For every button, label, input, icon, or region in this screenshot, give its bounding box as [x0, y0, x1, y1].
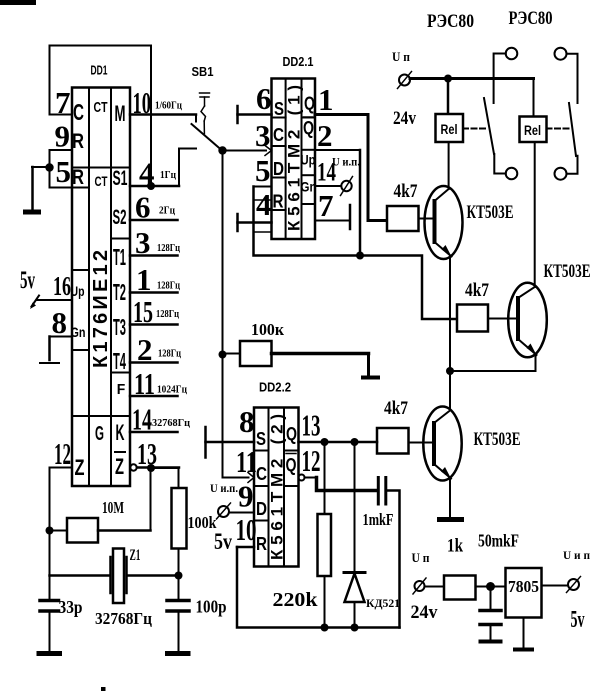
DD2.1 pin 1 Q out — [315, 82, 368, 117]
label U i.p. at pin 9 — [210, 481, 238, 495]
svg-text:КТ503Е: КТ503Е — [544, 261, 591, 282]
node 50mkF tap — [486, 582, 495, 591]
DD1 output label T2 — [113, 279, 126, 305]
svg-text:8: 8 — [52, 305, 68, 340]
svg-text:Q: Q — [286, 424, 297, 444]
DD1 input label Up — [71, 283, 85, 299]
label 1Hz — [160, 169, 177, 181]
resistor 1k — [425, 576, 506, 600]
wire 24v rail — [410, 77, 534, 80]
svg-text:F: F — [117, 381, 126, 398]
wire pin13 to 100k — [151, 468, 179, 488]
svg-text:S: S — [256, 429, 266, 449]
node pin5/ground — [45, 163, 53, 171]
capacitor 50mkF — [480, 587, 501, 641]
svg-text:DD2.2: DD2.2 — [259, 381, 291, 395]
svg-text:2: 2 — [137, 332, 153, 367]
svg-text:T2: T2 — [113, 279, 126, 305]
pin 7 — [50, 85, 73, 120]
svg-text:100p: 100p — [196, 597, 227, 617]
svg-text:4k7: 4k7 — [384, 398, 408, 419]
DD2.2 label D — [256, 499, 267, 519]
svg-text:R: R — [72, 130, 84, 153]
label 100p — [196, 597, 227, 617]
svg-text:1/60Гц: 1/60Гц — [155, 100, 183, 112]
wire pin12 down left rail — [49, 468, 51, 601]
svg-text:5v: 5v — [20, 267, 35, 294]
DD1 internal label G — [95, 423, 104, 445]
ground below 33p — [37, 651, 63, 656]
svg-text:16: 16 — [53, 271, 71, 301]
svg-text:11: 11 — [236, 444, 257, 479]
DD2.1 label Qbar — [303, 117, 314, 138]
label RES80 first — [427, 11, 474, 32]
DD2.2 label C — [256, 464, 267, 484]
svg-text:10: 10 — [236, 512, 257, 547]
connector Uip pin14 — [341, 177, 353, 196]
svg-text:4k7: 4k7 — [465, 280, 489, 301]
svg-text:C: C — [256, 464, 267, 484]
svg-text:T3: T3 — [113, 314, 126, 340]
DD1 output label M — [115, 101, 126, 126]
pin 1 — [130, 262, 178, 297]
pin 14 — [130, 402, 178, 437]
dashed link relay1 — [463, 128, 487, 130]
relay1 contact bottom — [494, 154, 517, 179]
label 10M — [102, 498, 124, 517]
DD1 internal label CT upper — [94, 100, 108, 116]
svg-text:50mkF: 50mkF — [478, 531, 519, 551]
label 128Hz d — [158, 348, 182, 360]
svg-text:РЭС80: РЭС80 — [427, 11, 474, 32]
svg-text:Rel: Rel — [524, 123, 541, 138]
svg-text:R: R — [256, 534, 267, 554]
pin 4 — [130, 156, 179, 191]
label 24v input — [411, 602, 438, 623]
DD2.2 pin 13 Q out — [299, 408, 378, 443]
DD1 output label S2 — [113, 206, 127, 229]
svg-text:15: 15 — [133, 294, 153, 329]
wire crystal row — [50, 574, 179, 577]
svg-text:100к: 100к — [251, 320, 284, 339]
svg-text:КТ503Е: КТ503Е — [474, 429, 521, 450]
IC DD2.1 body — [272, 79, 316, 240]
label 100k horizontal — [251, 320, 284, 339]
relay2 contact bottom — [555, 156, 578, 180]
pin 16 — [37, 271, 72, 301]
relay coil Rel 1 — [436, 79, 464, 143]
label RES80 second — [509, 8, 553, 29]
DD2.2 pin 11 clock arrow — [223, 444, 258, 483]
dashed link relay2 — [547, 128, 570, 130]
resistor 4k7 second — [457, 305, 516, 332]
pin 8 — [50, 305, 73, 340]
transistor Q1 KT503E — [425, 142, 463, 371]
node Qbar rail — [356, 252, 364, 260]
label 33p — [59, 597, 83, 617]
svg-text:24v: 24v — [393, 108, 416, 129]
svg-text:К176ИЕ12: К176ИЕ12 — [90, 250, 112, 368]
resistor 10M — [50, 518, 151, 543]
label 1k — [447, 536, 463, 557]
DD2.2 label Qbar — [286, 454, 297, 476]
relay1 contact top — [494, 48, 518, 103]
svg-text:24v: 24v — [411, 602, 438, 623]
svg-text:14: 14 — [132, 402, 152, 437]
label 128Hz a — [157, 242, 181, 254]
DD2.1 label Up — [301, 152, 316, 168]
svg-text:12: 12 — [302, 443, 321, 478]
svg-text:U и.п.: U и.п. — [332, 155, 360, 169]
DD1 output label Zbar — [115, 452, 125, 479]
wire feedback loop S1->C over DD1 — [50, 46, 152, 187]
pin 9 — [50, 119, 73, 154]
svg-text:Up: Up — [71, 283, 85, 299]
relay1 contact arm — [484, 98, 494, 154]
svg-text:9: 9 — [238, 479, 254, 514]
node Q to 220k — [321, 438, 329, 446]
label U i.p. at pin 14 — [332, 155, 360, 169]
label U p supply — [392, 49, 410, 64]
svg-text:U п: U п — [412, 550, 430, 565]
DD2.1 pin 3 clock arrow — [255, 118, 272, 156]
wire DD2.1 Qbar feedback to D — [254, 150, 361, 256]
svg-text:S2: S2 — [113, 206, 127, 229]
regulator 7805 — [506, 568, 542, 618]
svg-text:2: 2 — [317, 118, 333, 153]
svg-text:1: 1 — [136, 262, 152, 297]
svg-text:220k: 220k — [273, 589, 319, 611]
svg-text:32768Гц: 32768Гц — [95, 609, 152, 628]
label KD521 — [366, 596, 400, 610]
svg-text:РЭС80: РЭС80 — [509, 8, 553, 29]
DD2.2 label Q — [286, 424, 297, 444]
resistor 100k vertical — [172, 488, 187, 576]
svg-text:1: 1 — [318, 82, 334, 117]
label 128Hz c — [156, 308, 180, 320]
svg-text:U и п: U и п — [563, 548, 590, 562]
svg-text:10: 10 — [133, 85, 152, 120]
IC DD1 designator — [91, 64, 108, 78]
label 128Hz b — [157, 280, 181, 292]
svg-text:U п: U п — [392, 49, 410, 64]
DD2.1 pin 6 — [238, 81, 272, 123]
svg-text:6: 6 — [135, 190, 151, 225]
capacitor 33p — [40, 601, 59, 653]
DD2.2 pin 9 — [229, 479, 254, 514]
node SB1 common — [218, 146, 226, 154]
svg-text:1Гц: 1Гц — [160, 169, 177, 181]
DD2.1 pin 5 — [254, 153, 272, 188]
pin 3 — [130, 225, 178, 260]
svg-text:D: D — [256, 499, 267, 519]
DD2.1 label Gn — [301, 179, 317, 195]
label U p input — [412, 550, 430, 565]
pin 15 — [130, 294, 178, 329]
pin 13 with inverter bubble — [130, 436, 179, 471]
node emitter rail — [446, 367, 454, 375]
label 4k7 third — [384, 398, 408, 419]
svg-text:1k: 1k — [447, 536, 463, 557]
ground at pin 5 — [23, 167, 41, 212]
svg-text:1mkF: 1mkF — [363, 510, 394, 529]
label 100k — [188, 513, 218, 532]
connector 5v to pin 16 — [30, 296, 39, 310]
wire pin10 end bend — [195, 115, 197, 122]
resistor 100k horizontal — [223, 341, 369, 366]
svg-text:T1: T1 — [113, 244, 126, 270]
transistor Q3 KT503E — [423, 371, 461, 517]
svg-text:U и.п.: U и.п. — [210, 481, 238, 495]
svg-text:4: 4 — [139, 156, 155, 191]
label 5v output — [571, 607, 585, 633]
ground below 100p — [165, 651, 191, 656]
IC DD2.2 designator — [259, 381, 291, 395]
wire SB1 to DD2.1 C — [223, 150, 267, 152]
DD1 internal label CT lower — [95, 173, 108, 189]
svg-text:5v: 5v — [214, 529, 232, 554]
svg-text:CT: CT — [95, 173, 108, 189]
svg-text:Q: Q — [303, 118, 314, 138]
label KT503E second — [544, 261, 591, 282]
svg-text:6: 6 — [256, 81, 272, 116]
DD2.1 label D — [273, 159, 284, 179]
label 4k7 first — [394, 181, 418, 202]
wire 7805 output — [542, 585, 569, 587]
svg-text:Z: Z — [75, 455, 85, 480]
switch SB1 throw-2 stub from pin 4 — [179, 149, 196, 187]
pin 2 — [130, 332, 178, 367]
pin 10 — [130, 85, 196, 120]
ground below 50mkF — [479, 640, 503, 644]
switch SB1 button actuator — [200, 93, 210, 134]
label SB1 — [192, 65, 214, 79]
DD1 output label F — [117, 381, 126, 398]
svg-text:Q: Q — [286, 455, 297, 475]
DD2.1 pin 4 — [238, 187, 272, 232]
switch SB1 arm — [192, 124, 222, 150]
transistor Q2 KT503E — [450, 142, 547, 371]
DD2.1 pin 7 — [315, 188, 350, 229]
svg-text:G: G — [95, 423, 104, 445]
DD2.2 label S — [256, 429, 266, 449]
DD1 input label C — [73, 99, 84, 125]
DD1 input label Gn — [71, 324, 86, 340]
capacitor 100p — [167, 601, 189, 653]
DD2.1 pin 14 — [315, 158, 341, 187]
wire 1mkF right to rail — [386, 491, 400, 628]
label 5v at pin 9 — [214, 529, 232, 554]
svg-text:Z: Z — [115, 454, 124, 479]
svg-text:5: 5 — [56, 154, 72, 189]
svg-text:КД521: КД521 — [366, 596, 400, 610]
relay2 contact arm — [569, 103, 576, 156]
svg-text:Q: Q — [304, 94, 315, 114]
capacitor 1mkF — [378, 478, 386, 505]
DD2.1 label C — [273, 125, 284, 145]
svg-text:Gn: Gn — [71, 324, 86, 340]
label U i p output — [563, 548, 590, 562]
DD2.1 pin 2 Qbar out — [315, 118, 360, 153]
svg-text:1024Гц: 1024Гц — [157, 384, 188, 396]
svg-text:5v: 5v — [571, 607, 585, 633]
wire SB1 common down to DD2.2 C — [222, 151, 224, 478]
connector Uip output — [567, 577, 581, 593]
svg-text:R: R — [72, 166, 84, 189]
label 5v — [20, 267, 35, 294]
resistor 4k7 first — [387, 206, 433, 231]
DD1 input label R1 — [72, 130, 84, 153]
DD1 part name vertical K176IE12 — [90, 250, 112, 368]
DD2.1 label R — [273, 192, 284, 212]
wire 100k right end stub — [361, 354, 380, 378]
svg-text:DD2.1: DD2.1 — [283, 55, 314, 69]
label 24v — [393, 108, 416, 129]
DD1 output label T4 — [113, 348, 126, 374]
svg-text:C: C — [273, 125, 284, 145]
svg-text:5: 5 — [255, 153, 271, 188]
svg-text:K: K — [116, 420, 125, 445]
label 1/60Hz — [155, 100, 183, 112]
ground below Q3 — [437, 517, 464, 522]
svg-text:10M: 10M — [102, 498, 124, 517]
wire DD2.1 Q to 4k7 — [368, 115, 387, 221]
svg-text:8: 8 — [239, 404, 255, 439]
svg-text:2Гц: 2Гц — [159, 205, 176, 217]
svg-text:3: 3 — [135, 225, 151, 260]
svg-text:128Гц: 128Гц — [156, 308, 180, 320]
svg-text:13: 13 — [302, 408, 321, 443]
svg-text:128Гц: 128Гц — [157, 280, 181, 292]
svg-text:D: D — [273, 159, 284, 179]
DD2.2 pin 10 — [236, 512, 257, 547]
op IC DD1 body K176IE12 — [72, 88, 130, 487]
wire pin10 R to bottom rail — [237, 547, 400, 628]
wire Qbar rail to 4k7 second — [360, 256, 457, 320]
DD2.1 part name vertical — [285, 85, 304, 231]
diode KD521 — [344, 442, 365, 628]
node rail to relay1 — [444, 75, 452, 83]
svg-text:7: 7 — [55, 85, 71, 120]
node crystal right — [175, 572, 183, 580]
DD1 output label T1 — [113, 244, 126, 270]
svg-text:4k7: 4k7 — [394, 181, 418, 202]
DD1 output label S1 — [113, 167, 128, 190]
svg-text:4: 4 — [256, 187, 272, 222]
connector Uip pin9 — [217, 503, 231, 519]
svg-text:КТ503Е: КТ503Е — [467, 202, 514, 223]
DD1 input label Z — [75, 455, 85, 480]
svg-text:128Гц: 128Гц — [158, 348, 182, 360]
DD2.2 part name vertical — [268, 414, 287, 560]
connector Up 24v — [398, 72, 412, 89]
DD2.2 label R — [256, 534, 267, 554]
IC DD2.2 body — [254, 408, 299, 567]
connector Up input — [413, 578, 426, 594]
label 220k — [273, 589, 319, 611]
svg-text:7: 7 — [318, 188, 334, 223]
label 1024Hz — [157, 384, 188, 396]
label KT503E first — [467, 202, 514, 223]
label 2Hz — [159, 205, 176, 217]
wire 100p branch — [178, 576, 180, 601]
relay2 contact top — [555, 48, 578, 103]
label KT503E third — [474, 429, 521, 450]
label 1mkF — [363, 510, 394, 529]
svg-text:M: M — [115, 101, 126, 126]
pin 6 — [130, 190, 178, 225]
svg-text:Up: Up — [301, 152, 316, 168]
svg-text:32768Гц: 32768Гц — [152, 417, 191, 429]
resistor 4k7 third — [377, 428, 432, 454]
label 50mkF — [478, 531, 519, 551]
DD2.1 label S — [274, 99, 284, 119]
DD2.2 pin 8 — [206, 404, 255, 458]
IC DD2.1 designator — [283, 55, 314, 69]
node pin13 — [147, 464, 155, 472]
pin 11 — [130, 366, 178, 401]
svg-text:Rel: Rel — [441, 122, 458, 137]
DD2.1 label Q — [304, 94, 315, 114]
label Z1 — [130, 547, 141, 564]
svg-text:S: S — [274, 99, 284, 119]
svg-text:DD1: DD1 — [91, 64, 108, 78]
svg-text:Z1: Z1 — [130, 547, 141, 564]
DD1 input label R2 — [72, 166, 84, 189]
label 4k7 second — [465, 280, 489, 301]
node rail 220k — [321, 624, 329, 632]
svg-text:S1: S1 — [113, 167, 128, 190]
wire Qbar to 1mkF — [317, 478, 378, 491]
resistor 220k — [318, 442, 332, 628]
DD2.2 pin 12 Qbar out with bubble — [299, 443, 321, 481]
node junction S1/loop — [147, 182, 155, 190]
label 32768Hz — [95, 609, 152, 628]
svg-text:SB1: SB1 — [192, 65, 214, 79]
svg-text:T4: T4 — [113, 348, 126, 374]
label 32768Hz — [152, 417, 191, 429]
svg-text:7805: 7805 — [508, 577, 539, 596]
scan artifact top-left — [0, 0, 36, 5]
svg-text:CT: CT — [94, 100, 108, 116]
svg-text:128Гц: 128Гц — [157, 242, 181, 254]
node 100k tap — [219, 351, 227, 359]
wire pin13 down to 10M — [150, 468, 152, 531]
svg-text:12: 12 — [54, 436, 71, 471]
DD1 output label T3 — [113, 314, 126, 340]
node rail diode — [351, 624, 359, 632]
svg-text:100k: 100k — [188, 513, 218, 532]
svg-text:R: R — [273, 192, 284, 212]
pin 5 — [32, 150, 89, 189]
DD1 output label K — [116, 420, 125, 445]
svg-text:3: 3 — [255, 118, 271, 153]
svg-text:33p: 33p — [59, 597, 83, 617]
node 10M left — [46, 527, 54, 535]
node Q to diode — [351, 438, 359, 446]
svg-text:9: 9 — [55, 119, 71, 154]
svg-text:C: C — [73, 99, 84, 125]
pin 12 — [50, 436, 73, 471]
crystal Z1 — [111, 549, 127, 604]
svg-text:11: 11 — [134, 366, 155, 401]
relay coil Rel 2 — [520, 79, 547, 143]
ground below 7805 — [513, 618, 534, 650]
ground at pin 8 — [40, 337, 59, 364]
scan artifact bottom dot — [101, 687, 106, 691]
